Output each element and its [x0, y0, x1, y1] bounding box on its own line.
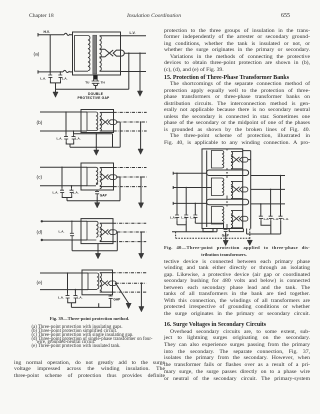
interphase bus bar 2	[207, 199, 249, 205]
wire: primary series stubs	[226, 149, 228, 229]
secondary arrester LA2 (gap)	[269, 216, 273, 221]
wire: HV phase A with fuse break	[38, 33, 73, 37]
phase line 1	[173, 172, 206, 175]
wire: secondary top lead	[100, 167, 114, 169]
secondary winding	[100, 112, 102, 131]
crossed leads unit 2	[231, 186, 240, 192]
wire: secondary line 2	[251, 188, 285, 190]
wire: LV mid line (dash-dot)	[117, 121, 146, 123]
ground (gap)	[95, 203, 100, 208]
secondary winding S1	[100, 36, 102, 71]
wire: primary top lead	[40, 272, 88, 274]
transformer tank T (c)	[81, 163, 114, 190]
primary neutral bus (inner)	[206, 151, 208, 228]
wire: secondary bottom lead	[100, 186, 114, 188]
wire: ground interconnection run	[56, 88, 129, 90]
node: phase terminal	[41, 220, 43, 222]
wire: tank ground stem	[97, 244, 99, 254]
wire: HV phase B with fuse break	[38, 70, 73, 73]
right column paragraph 1	[164, 28, 310, 74]
crossed leads	[100, 119, 109, 125]
wire: secondary top lead	[100, 111, 114, 113]
node: tank-ground junction	[96, 133, 98, 135]
svg-text:(e): (e)	[37, 280, 43, 286]
secondary winding unit 1	[231, 152, 233, 169]
wire: LA common bus	[66, 142, 74, 148]
node and dropper: secondary LA3	[280, 175, 282, 177]
ground (right)	[139, 307, 144, 312]
wire: secondary top lead / LV line	[100, 35, 147, 37]
node: bar 2 feed	[226, 201, 228, 203]
svg-text:(d): (d)	[37, 230, 43, 236]
primary winding	[87, 221, 98, 240]
wire: primary bottom lead	[40, 289, 88, 291]
left column bottom paragraph	[14, 360, 165, 380]
wire: phase lead	[42, 220, 87, 222]
wire: primary top lead	[40, 111, 87, 113]
secondary arrester unit 2	[240, 187, 248, 192]
wire: tank bottom lead	[74, 134, 113, 147]
wire: secondary bottom lead	[100, 291, 113, 293]
wire: phase B dropper	[73, 131, 75, 135]
wire: secondary top lead	[100, 222, 113, 224]
double protective gap TH	[95, 80, 99, 86]
svg-text:GAP: GAP	[113, 298, 121, 302]
secondary arrester unit 3	[240, 216, 248, 221]
svg-text:L.A.: L.A.	[264, 217, 270, 221]
primary winding unit 1	[211, 151, 223, 169]
wire: secondary neutral dashed ground	[249, 229, 251, 241]
wire: secondary LA bus	[261, 221, 281, 234]
primary winding	[87, 167, 98, 186]
wire: tank ground stem	[225, 233, 227, 240]
crossed leads	[100, 174, 109, 180]
svg-text:L.A.: L.A.	[57, 137, 63, 141]
wire: LA common bus	[50, 80, 60, 92]
secondary arrester (capsule)	[108, 230, 116, 235]
wire: secondary line 1	[251, 175, 285, 177]
wire: gap hook	[99, 300, 111, 308]
ground (right)	[137, 91, 142, 96]
primary arrester LA1 (gap)	[175, 215, 179, 221]
svg-text:L.A.: L.A.	[53, 190, 59, 194]
wire: secondary bottom lead	[100, 241, 113, 243]
wire: LV mid line (dash-dot)	[116, 282, 147, 284]
wire: dashed midpoint ground run	[176, 232, 250, 238]
section heading 15	[164, 75, 289, 81]
wire: secondary riser	[243, 151, 251, 229]
arrester LA2 (gap)	[58, 72, 62, 80]
wire: LV top line (dash-dot)	[114, 111, 147, 113]
svg-text:L.A.: L.A.	[59, 230, 65, 234]
wire: neutral lead	[42, 239, 87, 241]
wire: LA to ground bus	[71, 240, 73, 251]
wire: ground bus to mid-line dropper	[67, 200, 120, 202]
svg-text:TU: TU	[85, 80, 90, 84]
primary winding P1	[75, 36, 90, 72]
wire: secondary unit leads	[231, 152, 243, 228]
secondary winding	[100, 223, 102, 241]
wire: LA common bus	[68, 300, 76, 307]
svg-text:L.A.: L.A.	[273, 217, 279, 221]
wire: LV top line (dash-dot)	[113, 272, 147, 274]
secondary arrester (capsule)	[108, 120, 116, 125]
svg-text:H.V.: H.V.	[44, 30, 50, 34]
wire: LV bottom line (dash-dot)	[114, 130, 147, 132]
ground (diagonal)	[126, 303, 131, 308]
wire: phase B dropper	[74, 290, 76, 294]
node: arrester output	[117, 231, 119, 233]
double protective gap TU	[92, 80, 96, 86]
ground (tank)	[95, 253, 100, 258]
secondary arrester unit 1	[240, 157, 248, 162]
svg-text:PROTECTIVE GAP: PROTECTIVE GAP	[78, 96, 111, 100]
svg-text:(a): (a)	[34, 52, 40, 58]
svg-text:L.A.: L.A.	[40, 76, 46, 80]
crossed leads unit 3	[231, 216, 240, 222]
wire: LV ground dropper	[139, 53, 141, 91]
phase line 3	[173, 202, 206, 205]
wire: LV ground dropper	[140, 177, 142, 203]
wire: gap to ground run	[94, 86, 98, 90]
secondary arrester LA3 (gap)	[279, 216, 283, 221]
wire: tank ground stem	[95, 134, 97, 150]
wire: phase A dropper	[65, 112, 67, 135]
transformer bank tank	[202, 149, 243, 229]
wire: diagonal isolating lead	[116, 283, 129, 303]
page header: chapter	[29, 13, 54, 19]
figure 39 sublist	[32, 326, 165, 349]
wire: LV mid line (dash-dot)	[117, 231, 146, 233]
right column paragraph 3	[164, 259, 310, 318]
phase line 2	[173, 186, 211, 189]
right column paragraph 4	[164, 329, 310, 383]
wire: arrester to LV mid line	[124, 52, 146, 54]
tank electrode (black square)	[93, 75, 97, 79]
svg-text:L.A.: L.A.	[58, 296, 64, 300]
secondary arrester (capsule)	[108, 281, 116, 286]
transformer tank T (e) insulated	[82, 270, 113, 295]
right column paragraph 2	[164, 81, 310, 146]
svg-text:DOUBLE: DOUBLE	[88, 92, 104, 96]
wire: phase A dropper	[61, 167, 63, 188]
wire: ground bus	[72, 250, 117, 252]
secondary arrester (capsule)	[113, 50, 124, 56]
wire: LV top line (dash-dot)	[114, 167, 147, 169]
primary LA3 dropper	[195, 203, 197, 205]
crossed leads unit 1	[231, 157, 240, 163]
wire: LV bottom line (dash-dot)	[113, 291, 147, 293]
wire: LV mid line (dash-dot)	[117, 176, 146, 178]
node: neutral terminal	[41, 239, 43, 241]
wire: arrester 1 output	[248, 159, 251, 161]
secondary winding unit 3	[231, 211, 233, 228]
svg-text:L.A.: L.A.	[181, 216, 187, 220]
svg-text:L.A.: L.A.	[170, 216, 176, 220]
ground (tank)	[94, 150, 99, 155]
wire: LA common bus	[62, 195, 71, 201]
node: bar 1 feed	[226, 172, 228, 174]
arrester LA1 (gap)	[48, 72, 52, 80]
node: arrester output	[117, 121, 119, 123]
tank foot right	[229, 229, 243, 232]
primary arrester LA2 (gap)	[184, 215, 188, 221]
arrester LA1 (gap)	[60, 188, 64, 195]
primary LA1 dropper	[176, 173, 178, 175]
crossed leads to arrester	[100, 49, 114, 57]
wire: mid-line to ground bus	[119, 177, 121, 201]
svg-text:L.A.: L.A.	[190, 216, 196, 220]
ground (right)	[139, 253, 144, 258]
wire: secondary bottom lead	[100, 130, 114, 132]
node and dropper: secondary LA2	[270, 189, 272, 191]
arrester LA (gap)	[70, 221, 74, 240]
svg-text:L.A.: L.A.	[283, 217, 289, 221]
transformer tank T (a)	[73, 32, 121, 75]
tank foot left	[203, 229, 213, 232]
wire: LV ground dropper	[140, 122, 142, 149]
wire: LV ground dropper	[140, 232, 142, 253]
secondary winding unit 2	[231, 181, 233, 198]
wire: phase B dropper	[71, 186, 73, 188]
figure 40 caption	[164, 245, 310, 251]
wire: left phase drop	[49, 35, 51, 72]
insulating gap at tank	[109, 295, 113, 300]
arrester LA2 (gap)	[73, 294, 77, 301]
transformer tank T (d)	[81, 219, 113, 244]
wire: gap ground stem	[96, 196, 98, 202]
secondary winding	[100, 273, 102, 292]
ground (right)	[138, 203, 143, 208]
page number	[281, 13, 290, 19]
node: arrester output	[117, 176, 119, 178]
wire: LV bottom line (dash-dot)	[113, 241, 146, 243]
wire: mid-line to ground bus	[116, 232, 118, 251]
crossed leads	[100, 280, 108, 286]
ground (secondary, dashed stem)	[247, 240, 252, 245]
wire: ground bus	[70, 122, 120, 147]
wire: secondary bottom lead / LV line	[100, 70, 147, 72]
crossed leads	[100, 229, 109, 235]
core (hatched)	[93, 35, 97, 74]
section heading 16	[164, 322, 266, 328]
primary winding unit 2	[211, 178, 223, 196]
svg-text:L.V.: L.V.	[130, 31, 136, 35]
wire: secondary top lead	[100, 272, 113, 274]
single protective gap	[95, 190, 99, 196]
ground (right)	[138, 149, 143, 154]
primary winding	[87, 112, 98, 131]
secondary arrester LA1 (gap)	[259, 216, 263, 221]
wire: secondary ground bus	[247, 229, 281, 235]
svg-text:GAP: GAP	[100, 193, 108, 197]
arrester LA1 (gap)	[64, 137, 68, 142]
page header: running title	[127, 13, 181, 19]
svg-text:(b): (b)	[37, 120, 43, 126]
secondary winding	[100, 168, 102, 189]
wire: LV ground dropper	[140, 283, 142, 306]
primary LA2 dropper	[185, 187, 187, 189]
ground (tank)	[223, 240, 228, 245]
svg-text:TH: TH	[101, 80, 106, 84]
wire: primary bottom lead	[40, 130, 87, 132]
wire: LV bottom line (dash-dot)	[114, 186, 147, 188]
wire: mid-line dropper to ground bus	[128, 53, 130, 89]
arrester LA1 (gap)	[66, 294, 70, 301]
wire: primary LA ground bus	[172, 221, 224, 232]
svg-text:(c): (c)	[37, 174, 43, 180]
primary arrester LA3 (gap)	[193, 215, 197, 221]
interphase bus bar 1	[207, 170, 249, 176]
ground (left)	[53, 92, 58, 97]
arrester LA2 (gap)	[72, 137, 76, 142]
wire: LV top line (dash-dot)	[113, 222, 146, 224]
secondary arrester (capsule)	[108, 175, 116, 180]
wire: phase A dropper	[67, 273, 69, 294]
arrester LA2 (gap)	[70, 188, 74, 195]
wire: tank tie run	[71, 303, 98, 307]
transformer tank T (b)	[81, 110, 114, 133]
tank gap	[224, 229, 228, 234]
primary winding	[88, 273, 99, 290]
svg-text:L.A.: L.A.	[62, 76, 68, 80]
wire: primary bottom lead	[40, 185, 87, 187]
primary winding unit 3	[211, 207, 223, 225]
wire: primary top lead	[40, 166, 87, 168]
node: arrester output	[115, 282, 117, 284]
node and dropper: secondary LA1	[260, 203, 262, 205]
figure 39 caption	[14, 316, 165, 322]
wire: secondary line 3	[251, 203, 285, 205]
